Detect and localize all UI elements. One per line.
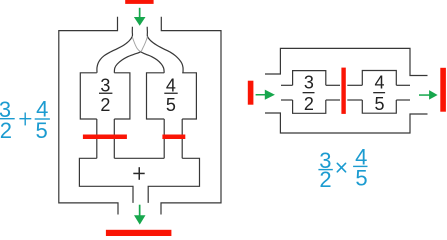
- svg-text:2: 2: [100, 95, 110, 115]
- svg-text:5: 5: [35, 118, 47, 143]
- svg-text:4: 4: [374, 73, 384, 93]
- svg-text:2: 2: [304, 94, 314, 114]
- svg-text:5: 5: [166, 95, 176, 115]
- svg-text:3: 3: [304, 73, 314, 93]
- svg-text:5: 5: [374, 94, 384, 114]
- svg-text:3: 3: [100, 75, 110, 95]
- svg-text:2: 2: [0, 118, 12, 143]
- svg-text:4: 4: [166, 75, 176, 95]
- svg-text:2: 2: [319, 167, 331, 192]
- svg-text:5: 5: [355, 166, 367, 191]
